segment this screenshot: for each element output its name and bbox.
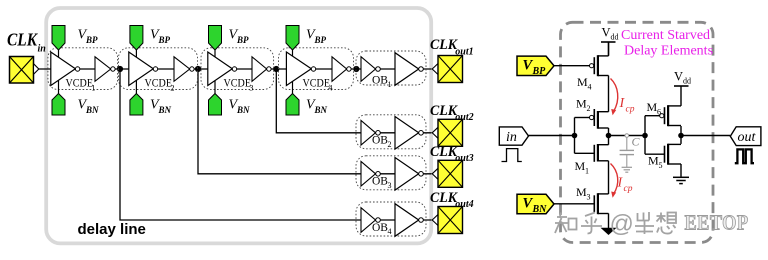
svg-text:4: 4 <box>388 227 392 236</box>
svg-text:Current Starved: Current Starved <box>621 28 710 43</box>
svg-text:4: 4 <box>328 83 333 93</box>
svg-text:BN: BN <box>85 105 99 115</box>
svg-text:in: in <box>506 130 517 145</box>
svg-text:OB: OB <box>372 75 388 87</box>
svg-text:2: 2 <box>388 140 392 149</box>
svg-text:BN: BN <box>236 105 250 115</box>
svg-text:cp: cp <box>624 184 633 194</box>
svg-text:2: 2 <box>587 104 591 113</box>
svg-text:CLK: CLK <box>430 37 458 53</box>
svg-text:M: M <box>647 100 658 114</box>
svg-text:BP: BP <box>158 35 171 45</box>
svg-text:1: 1 <box>388 80 392 89</box>
svg-text:3: 3 <box>249 83 253 93</box>
svg-text:C: C <box>632 135 641 149</box>
svg-text:BN: BN <box>158 105 172 115</box>
svg-text:3: 3 <box>388 181 392 190</box>
svg-text:OB: OB <box>372 222 388 234</box>
svg-text:BP: BP <box>236 35 249 45</box>
svg-text:M: M <box>576 97 587 111</box>
svg-text:in: in <box>38 44 47 55</box>
svg-text:BP: BP <box>85 35 98 45</box>
svg-text:V: V <box>602 26 611 40</box>
svg-text:EETOP: EETOP <box>685 211 749 235</box>
svg-text:OB: OB <box>372 176 388 188</box>
svg-text:dd: dd <box>683 77 691 86</box>
svg-text:2: 2 <box>170 83 174 93</box>
svg-text:M: M <box>648 154 659 168</box>
svg-text:CLK: CLK <box>430 103 458 119</box>
svg-text:CLK: CLK <box>7 29 39 49</box>
svg-text:VCDE: VCDE <box>66 78 94 90</box>
svg-text:CLK: CLK <box>430 190 458 206</box>
svg-text:@: @ <box>610 211 634 238</box>
svg-text:CLK: CLK <box>430 144 458 160</box>
svg-text:4: 4 <box>588 83 592 92</box>
svg-text:delay line: delay line <box>78 221 146 238</box>
svg-text:Delay Elements: Delay Elements <box>624 44 713 59</box>
svg-text:1: 1 <box>91 83 95 93</box>
svg-text:M: M <box>576 185 587 199</box>
svg-text:VCDE: VCDE <box>224 78 252 90</box>
svg-text:BN: BN <box>314 105 328 115</box>
svg-text:cp: cp <box>626 105 635 115</box>
svg-text:M: M <box>577 75 588 89</box>
svg-text:VCDE: VCDE <box>303 78 331 90</box>
svg-text:BP: BP <box>532 66 547 77</box>
svg-text:BN: BN <box>532 204 548 215</box>
svg-text:3: 3 <box>587 193 591 202</box>
svg-text:OB: OB <box>372 135 388 147</box>
svg-text:1: 1 <box>585 167 589 176</box>
svg-text:BP: BP <box>314 35 327 45</box>
svg-text:VCDE: VCDE <box>145 78 173 90</box>
svg-text:5: 5 <box>659 161 663 170</box>
svg-text:out: out <box>738 130 757 145</box>
svg-text:V: V <box>674 70 683 84</box>
svg-text:M: M <box>575 159 586 173</box>
svg-text:dd: dd <box>611 33 619 42</box>
svg-text:6: 6 <box>657 108 661 117</box>
